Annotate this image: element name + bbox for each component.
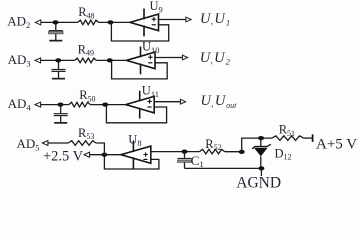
wire feedback loop xyxy=(112,60,168,79)
node junction +2.5V xyxy=(101,153,107,157)
node junction xyxy=(58,103,64,107)
wire xyxy=(90,104,125,106)
resistor R53 xyxy=(68,141,96,146)
wire output xyxy=(159,19,187,21)
wire xyxy=(41,104,69,106)
node junction xyxy=(107,58,113,62)
ground xyxy=(54,122,67,124)
port connector AD4 xyxy=(35,102,41,107)
output arrow xyxy=(182,55,187,60)
output arrow xyxy=(186,17,191,22)
wire xyxy=(48,142,68,144)
node junction AGND xyxy=(258,166,264,170)
node junction xyxy=(102,103,108,107)
wire AGND stem xyxy=(260,168,262,176)
resistor R52 xyxy=(199,149,224,154)
resistor R49 xyxy=(75,58,97,63)
node junction C1 xyxy=(182,150,188,154)
wire xyxy=(41,21,78,23)
wire feedback loop xyxy=(106,105,166,123)
wire xyxy=(96,143,159,169)
wire xyxy=(60,105,62,114)
capacitor C1 xyxy=(177,152,191,169)
wire xyxy=(242,138,272,152)
resistor R50 xyxy=(69,102,91,107)
wire xyxy=(304,137,313,139)
capacitor plates xyxy=(49,30,64,34)
wire xyxy=(58,60,60,69)
wire output xyxy=(155,101,181,103)
wire xyxy=(225,151,242,153)
wire output xyxy=(156,57,183,59)
op-amp U9 xyxy=(130,9,159,37)
capacitor plates xyxy=(54,113,68,116)
port connector AD3 xyxy=(35,58,41,63)
node junction xyxy=(55,58,61,62)
wire bottom rail xyxy=(185,167,262,169)
wire xyxy=(90,154,121,156)
terminal tick A+5V xyxy=(312,134,314,142)
diode D12 (zener) xyxy=(252,138,271,168)
wire xyxy=(55,22,57,30)
node junction xyxy=(53,20,59,24)
port connector +2.5V xyxy=(84,152,90,157)
op-amp U10 xyxy=(127,47,156,75)
wire xyxy=(97,59,127,61)
capacitor plates xyxy=(52,69,66,72)
output arrow xyxy=(180,99,185,104)
resistor R51 xyxy=(272,136,304,141)
port connector AD2 xyxy=(35,20,41,25)
wire xyxy=(58,72,60,78)
op-amp U11 xyxy=(126,91,155,119)
node junction xyxy=(239,150,245,154)
wire feedback loop xyxy=(111,22,168,41)
wire xyxy=(99,21,130,23)
resistor R48 xyxy=(78,20,99,25)
node junction diode top xyxy=(258,136,264,140)
svg-text:AGND: AGND xyxy=(236,175,281,192)
wire xyxy=(60,116,62,122)
port connector AD5 xyxy=(42,141,48,146)
ground xyxy=(49,40,62,42)
op-amp U8 xyxy=(121,141,151,169)
ground xyxy=(52,78,65,80)
wire xyxy=(41,59,75,61)
svg-text:+2.5 V: +2.5 V xyxy=(43,149,84,165)
svg-text:A+5 V: A+5 V xyxy=(316,136,357,152)
wire output xyxy=(151,151,200,153)
node junction xyxy=(108,20,114,24)
wire xyxy=(55,34,57,40)
